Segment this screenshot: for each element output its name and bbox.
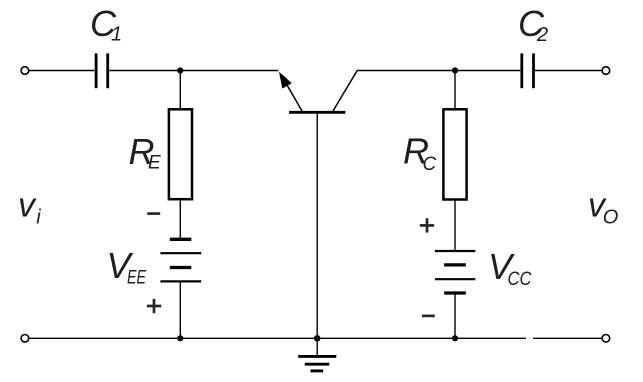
- label RE: [129, 131, 162, 174]
- svg-text:O: O: [603, 207, 619, 229]
- wire: RE to battery VEE: [179, 199, 181, 238]
- wire: junction to RC: [454, 71, 456, 110]
- svg-text:2: 2: [536, 24, 548, 46]
- node: VCC/bottom rail junction: [452, 335, 458, 341]
- label vi: [18, 187, 41, 229]
- label vO: [588, 187, 618, 229]
- capacitor C1: [96, 53, 108, 88]
- node: collector/RC junction: [452, 67, 458, 73]
- wire: junction to RE: [179, 71, 181, 110]
- ground symbol: [298, 356, 336, 371]
- input terminal (top-left): [21, 67, 29, 75]
- wire: RC to battery VCC: [454, 200, 456, 251]
- resistor RE: [169, 109, 192, 199]
- svg-text:E: E: [148, 153, 161, 174]
- input ground terminal (bottom-left): [21, 335, 29, 343]
- wire: C1 to emitter: [109, 70, 278, 72]
- node: VEE/bottom rail junction: [177, 335, 183, 341]
- svg-text:1: 1: [111, 24, 122, 46]
- wire: bottom rail (right segment): [533, 337, 602, 339]
- plus sign (VCC top): [420, 218, 434, 232]
- transistor Q1 emitter diagonal: [285, 82, 302, 112]
- svg-text:EE: EE: [127, 268, 146, 289]
- wire: VEE to bottom rail: [179, 281, 181, 338]
- minus sign (VEE top): [147, 212, 160, 215]
- plus sign (VEE bottom): [147, 299, 161, 313]
- label C2: [518, 3, 548, 46]
- transistor Q1 collector diagonal: [333, 71, 357, 112]
- output terminal (top-right): [602, 67, 610, 75]
- transistor Q1 emitter arrowhead: [279, 72, 292, 89]
- node: emitter/RE junction: [177, 67, 183, 73]
- node: base/bottom rail junction: [314, 335, 321, 342]
- svg-text:CC: CC: [508, 269, 532, 290]
- minus sign (VCC bottom): [422, 315, 435, 318]
- svg-text:C: C: [423, 154, 437, 175]
- wire: VCC to bottom rail: [454, 293, 456, 338]
- svg-text:i: i: [36, 207, 41, 229]
- resistor RC: [443, 109, 466, 199]
- label VCC: [488, 246, 532, 290]
- transistor Q1 base bar: [289, 111, 345, 114]
- label VEE: [107, 245, 147, 289]
- wire: base to ground: [316, 114, 318, 356]
- label RC: [403, 131, 437, 176]
- capacitor C2: [522, 53, 534, 88]
- wire: collector to C2: [357, 70, 520, 72]
- wire: bottom rail (left segment): [29, 337, 526, 339]
- label C1: [90, 3, 122, 46]
- battery VCC: [435, 251, 475, 293]
- wire: C2 to output terminal: [535, 70, 602, 72]
- svg-text:v: v: [18, 187, 37, 225]
- output ground terminal (bottom-right): [602, 335, 610, 343]
- battery VEE: [160, 239, 201, 281]
- wire: input terminal to C1: [29, 70, 95, 72]
